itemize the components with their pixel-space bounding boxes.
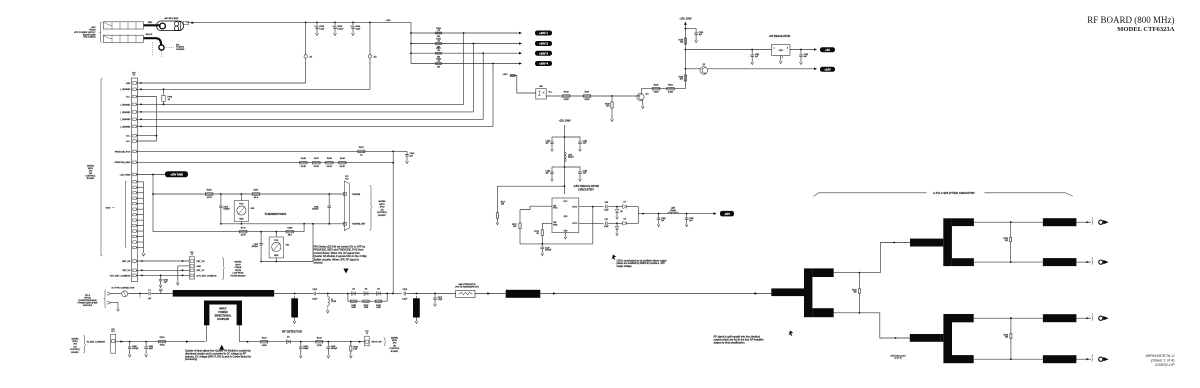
wire PINDIODE_POS <box>136 150 407 152</box>
svg-text:I_SENSE0: I_SENSE0 <box>120 89 131 91</box>
splitter stage2-top input stripline <box>910 239 943 247</box>
wire: BLACK lead to chassis lug <box>144 38 162 45</box>
PIN diode D3 <box>364 292 368 296</box>
svg-text:N.C.: N.C. <box>549 92 553 94</box>
capacitor C605 on +26V bus <box>316 22 318 24</box>
svg-text:PINDIODE_POS: PINDIODE_POS <box>115 151 131 153</box>
svg-text:MATES: MATES <box>71 337 79 340</box>
net label -15V <box>720 211 734 217</box>
net label +26V 1 <box>535 31 552 36</box>
svg-text:I_SENSE4: I_SENSE4 <box>120 126 131 128</box>
PIN diode D2 <box>347 293 349 295</box>
junction E1 vertical <box>305 22 307 24</box>
svg-text:supply voltage.: supply voltage. <box>617 265 633 268</box>
resistor R177 10K bleed to ground <box>496 186 498 213</box>
junction to I_SENSE4 <box>492 63 494 65</box>
svg-text:100: 100 <box>853 292 856 294</box>
svg-text:+26V 3: +26V 3 <box>539 51 548 55</box>
board edge bracket output 4 <box>1091 357 1094 362</box>
svg-text:+26V 1: +26V 1 <box>539 31 548 35</box>
svg-text:C67: C67 <box>605 219 608 221</box>
connector P1 pin I_SENSE4 <box>133 125 136 128</box>
connector P1 pin I_SENSE0 <box>133 88 136 91</box>
svg-text:BOARD: BOARD <box>378 214 386 217</box>
wire DET_VF <box>136 269 189 271</box>
svg-text:CONTROL: CONTROL <box>70 349 81 351</box>
arrow into +26V 1 label <box>519 32 522 35</box>
connector P1 GND pin 10 <box>133 230 136 232</box>
balance resistor R134 stage1 <box>859 272 861 274</box>
resistor R139 100K <box>363 300 370 302</box>
svg-text:4.32K: 4.32K <box>564 99 570 101</box>
svg-text:WITH: WITH <box>392 340 398 342</box>
arrow on IN_DET line <box>186 340 189 342</box>
wire outputs merge <box>637 207 639 224</box>
resistor R126 0.07 ohm row 2 <box>436 43 442 45</box>
RF input pin arrows <box>107 292 111 304</box>
net label +26V 2 <box>535 41 552 46</box>
riser I_SENSE3 <box>482 53 484 119</box>
label 1-TO-4 SPLITTER CIRCUITRY with bracket <box>814 193 927 197</box>
wire I_SENSE3 <box>136 118 483 120</box>
arrow into -15V <box>714 212 717 215</box>
capacitor C150 1uF at top <box>685 28 687 30</box>
connector P1 pin N.C. <box>133 134 136 137</box>
junction PINDIODE_POS / bias riser <box>392 151 394 153</box>
arrow into +15V <box>814 68 817 71</box>
resistor R148 24.3K <box>326 162 334 164</box>
connector J1 body <box>365 336 370 346</box>
bias resistor rail right <box>386 294 388 302</box>
svg-text:VSS: VSS <box>563 230 568 232</box>
connector P1 pin OUT_DET_COMMON <box>133 274 136 277</box>
svg-text:+26V 4: +26V 4 <box>539 62 548 66</box>
resistor R103 5.6K shunt <box>350 341 352 343</box>
svg-text:4700pF: 4700pF <box>545 250 552 252</box>
svg-text:1: 1 <box>774 48 775 50</box>
svg-text:+15V_RAW: +15V_RAW <box>119 173 130 176</box>
capacitor C67 10uF series bottom <box>606 222 607 226</box>
resistor R138 100K <box>348 300 387 302</box>
shunt stub bar 2 <box>416 293 418 295</box>
svg-text:1T/2N: 1T/2N <box>331 301 337 303</box>
wire DET_VR <box>136 260 189 262</box>
svg-text:3W: 3W <box>437 67 440 69</box>
GND bus vertical <box>143 182 145 251</box>
svg-text:POWER AMPLIFIER: POWER AMPLIFIER <box>78 301 98 304</box>
brace JP3 <box>83 335 85 353</box>
svg-text:1000pF: 1000pF <box>132 348 139 350</box>
svg-text:.05: .05 <box>437 50 440 52</box>
arrow into +5V <box>814 48 817 51</box>
ferrite bead E500 on +26V stub <box>511 75 516 77</box>
connector P1 pin N.C. <box>133 95 136 98</box>
resistor R203 3.32K <box>652 88 660 90</box>
board edge bracket output 2 <box>1091 260 1094 265</box>
PIN diode D4 <box>377 292 381 296</box>
board edge bracket output 3 <box>1091 316 1094 321</box>
svg-text:VCC: VCC <box>563 201 568 203</box>
wire: RED lead to bus bar <box>144 24 161 26</box>
svg-text:1: 1 <box>1092 314 1093 316</box>
wire to series cap C7 <box>128 293 148 295</box>
svg-text:1: 1 <box>1092 258 1093 260</box>
wire N.C. jumper pins 8-9 <box>136 135 156 137</box>
svg-text:pulses are rectified by D8/D9: pulses are rectified by D8/D9 to provide… <box>616 262 666 265</box>
wire IN1 <box>520 206 552 209</box>
svg-text:+15V_RAW: +15V_RAW <box>679 18 692 21</box>
svg-text:1: 1 <box>1092 355 1093 357</box>
output connector 2 <box>1099 260 1103 264</box>
resistor R146 24.3K <box>300 162 308 164</box>
wire PINDIODE_NEG <box>136 162 393 164</box>
output stripline 1 <box>1043 218 1077 226</box>
svg-text:.05: .05 <box>437 30 440 32</box>
capacitor C401 43pF <box>145 341 147 343</box>
wire long RF line to splitter <box>540 293 771 295</box>
directional coupler right leg <box>237 301 242 326</box>
power cable red conductor sheath <box>103 22 143 29</box>
svg-text:ON: ON <box>73 346 77 348</box>
wire: vertical +26V pin feed x305.7 <box>305 22 307 83</box>
svg-text:N.C.: N.C. <box>126 141 131 143</box>
output stripline 3 <box>1043 314 1077 322</box>
bus bar ring terminal <box>160 23 166 29</box>
connector P1 GND pin 8 <box>133 219 136 221</box>
feedback riser from OUT1 <box>592 206 594 208</box>
net label +5V <box>820 47 835 52</box>
svg-text:DET_VR: DET_VR <box>122 261 131 263</box>
junction E2 vertical <box>369 22 371 24</box>
wire: vertical I_SENSE0 feed x370 <box>369 22 371 89</box>
svg-text:.05: .05 <box>437 61 440 63</box>
arrow on RF line <box>487 292 490 295</box>
connector P1 pin PINDIODE_POS <box>133 150 136 153</box>
svg-text:24.3K: 24.3K <box>327 166 333 168</box>
svg-text:ON: ON <box>393 345 397 347</box>
wire +15V_RAW vertical x685 <box>684 23 686 89</box>
wire stage1 bottom out <box>834 313 910 338</box>
connector PL2 body <box>344 181 349 231</box>
wire output 4 <box>1076 358 1091 360</box>
splitter stage1 vertical bar <box>804 268 812 317</box>
connector P1 GND pin 12 <box>133 241 136 243</box>
wire IN2 <box>542 222 552 224</box>
svg-text:+26V BUS BAR: +26V BUS BAR <box>164 17 179 20</box>
svg-text:INPUT_RF: INPUT_RF <box>372 342 383 344</box>
note: U25 oscillator explanation <box>612 255 617 260</box>
wire out D <box>974 358 1043 360</box>
ground symbol for GND pins <box>142 251 145 256</box>
svg-text:8.2pF: 8.2pF <box>402 298 408 300</box>
balance resistor R136 <box>1010 317 1012 319</box>
arrow on RF line 3 <box>755 292 758 295</box>
wire out C <box>974 317 1043 319</box>
resistor R196 on x685 lower <box>684 75 686 81</box>
svg-text:14.7K: 14.7K <box>241 235 247 237</box>
capacitor C910 on PIN bias <box>406 151 408 154</box>
svg-text:N.C.: N.C. <box>126 96 131 98</box>
svg-text:WITH: WITH <box>235 264 241 266</box>
capacitor C143 0.1uF <box>565 167 581 172</box>
svg-text:PL1: PL1 <box>111 331 114 333</box>
svg-text:TSENSE: TSENSE <box>352 194 361 196</box>
svg-text:J2: J2 <box>191 254 193 256</box>
riser I_SENSE1 <box>463 33 465 104</box>
capacitor C140 1uF <box>564 136 566 138</box>
junction loop2 riser <box>303 223 305 225</box>
connector P1 pin +15V_RAW <box>133 173 136 176</box>
net label +26V 4 <box>535 61 552 66</box>
svg-text:D5: D5 <box>623 218 625 220</box>
wire out A <box>974 221 1043 223</box>
splitter input stripline <box>771 288 804 296</box>
svg-text:+26V 2: +26V 2 <box>539 42 548 46</box>
svg-text:MATES: MATES <box>378 200 386 203</box>
connector P1 pin DET_VF <box>133 269 136 272</box>
svg-text:NEG: NEG <box>553 225 558 227</box>
thermistor RT2 <box>275 231 277 233</box>
capacitor C206 1uF shunt <box>658 213 660 215</box>
svg-text:DET_VF: DET_VF <box>197 270 205 272</box>
svg-text:CABLE: CABLE <box>235 266 242 269</box>
wire +15V_RAW to U25 <box>564 125 566 194</box>
svg-text:1000pF: 1000pF <box>223 209 230 211</box>
splitter stage1 top arm <box>812 268 833 277</box>
resistor R147 24.3K <box>313 162 321 164</box>
svg-text:.05: .05 <box>437 41 440 43</box>
svg-text:QUARTER/SIGNAL: QUARTER/SIGNAL <box>78 299 98 302</box>
riser I_SENSE4 <box>492 64 494 127</box>
directional coupler left leg <box>204 301 209 326</box>
svg-text:DET_VR: DET_VR <box>197 261 205 263</box>
svg-text:OUT2: OUT2 <box>572 223 577 225</box>
diode D6 shunt top <box>616 206 618 208</box>
wire I_SENSE2 <box>136 111 473 113</box>
splitter stage2-bottom input stripline <box>910 334 941 342</box>
wire OUT1 <box>579 206 604 208</box>
capacitor C933 at RF line <box>160 291 162 294</box>
svg-text:ON: ON <box>380 209 384 211</box>
pointer arrow below PIN diodes note <box>343 269 348 274</box>
bias resistor rail left <box>347 294 349 302</box>
output connector 4 <box>1099 357 1103 361</box>
shunt stub bar 1 <box>294 293 296 295</box>
capacitor C610 6.8pF series <box>314 292 315 296</box>
wire VCC bleed line <box>497 185 564 187</box>
svg-text:PINDIODE_NEG: PINDIODE_NEG <box>115 162 131 164</box>
arrow into +26V 4 label <box>519 62 522 65</box>
svg-text:RF A: RF A <box>85 294 90 297</box>
svg-text:1-TO-4 SPLITTER CIRCUITRY: 1-TO-4 SPLITTER CIRCUITRY <box>933 191 975 195</box>
svg-text:+26V: +26V <box>502 74 508 76</box>
connector P1 GND pin 7 <box>133 213 136 215</box>
brace: thermistor connector group <box>370 185 373 230</box>
bracket GND group <box>125 181 126 248</box>
capacitor C152 1uF <box>751 49 753 51</box>
svg-text:BOARD: BOARD <box>87 177 95 180</box>
net label +15V <box>820 67 835 72</box>
IC U25 <box>552 198 579 233</box>
svg-text:+26V: +26V <box>125 83 131 85</box>
stripline TL2 bar <box>506 290 541 298</box>
svg-text:0.01μF: 0.01μF <box>337 29 344 31</box>
svg-text:FILTER BOARD: FILTER BOARD <box>231 275 246 278</box>
note: sample of input signal <box>219 345 224 350</box>
wire output 1 <box>1076 221 1091 223</box>
terminal E1 <box>304 55 307 58</box>
junction to I_SENSE3 <box>482 52 484 54</box>
capacitor C906 1000pF near connector <box>328 193 330 195</box>
capacitor C905 1000pF thermistor loop1 <box>220 193 222 195</box>
capacitor C402 390pF shunt <box>300 341 302 343</box>
bus bar stud circles <box>174 22 178 26</box>
svg-text:I_SENSE2: I_SENSE2 <box>120 112 131 114</box>
wire I_SENSE4 <box>136 125 493 127</box>
connector P1 GND pin 11 <box>133 235 136 237</box>
resistor R140 100K <box>375 300 382 302</box>
capacitor C612 1.5pF shunt <box>434 293 436 295</box>
connector P1 pin I_SENSE1 <box>133 103 136 106</box>
wire: +26V feed row 4 <box>411 63 521 65</box>
connector PL2 pin TSENSE_RET <box>343 222 346 225</box>
capacitor C141 0.1uF <box>565 137 581 142</box>
splitter stage1 bottom arm <box>812 308 833 317</box>
junction PIN bias <box>392 293 394 295</box>
output connector 3 <box>1099 316 1103 320</box>
svg-text:NEG: NEG <box>274 255 279 257</box>
resistor R127 0.07 ohm row 3 <box>436 52 442 54</box>
attenuator AT1 <box>456 290 475 297</box>
svg-text:NEG: NEG <box>239 219 244 221</box>
capacitor C153 1uF <box>800 49 802 51</box>
svg-text:0.1μF: 0.1μF <box>319 29 325 31</box>
wire TSENSE_RET bottom line <box>221 223 345 225</box>
connector P1 pin I_SENSE3 <box>133 118 136 121</box>
svg-text:4.32K: 4.32K <box>584 99 590 101</box>
junction to I_SENSE1 <box>463 32 465 34</box>
svg-text:N.C.: N.C. <box>126 136 131 138</box>
wire TSENSE top line <box>153 193 345 195</box>
svg-text:3: 3 <box>787 48 788 50</box>
brace for power cable <box>101 22 103 42</box>
svg-text:(VIA CABLE): (VIA CABLE) <box>83 36 95 39</box>
svg-text:220μH: 220μH <box>670 210 676 212</box>
wire N.C. pin 3 stub <box>136 96 156 98</box>
connector PL1 body <box>111 334 116 353</box>
svg-text:.01μF: .01μF <box>355 29 361 31</box>
svg-text:OUT1: OUT1 <box>572 207 577 209</box>
svg-text:U25 is constructed as an oscil: U25 is constructed as an oscillator whos… <box>617 260 667 263</box>
connector P1 body <box>132 78 138 282</box>
connector P1 GND pin 6 <box>133 208 136 210</box>
svg-text:I_SENSE3: I_SENSE3 <box>120 119 131 121</box>
svg-text:100K: 100K <box>376 307 381 309</box>
junction +15V node <box>685 68 687 70</box>
thermistor RT1 <box>241 193 243 195</box>
svg-text:24.3K: 24.3K <box>301 166 307 168</box>
terminal E2 <box>368 55 371 58</box>
connector PL1 pin <box>112 340 115 343</box>
svg-text:C66: C66 <box>605 202 608 204</box>
wire +15V RAW branch to thermistor loop2 <box>152 175 154 232</box>
splitter stage2-top lower arm <box>952 258 974 266</box>
wire IN_DET_COMMON <box>116 341 206 343</box>
connector J2 body <box>189 257 194 279</box>
GND jumper to J2 <box>178 265 190 267</box>
svg-text:+26V: +26V <box>385 20 391 22</box>
chassis ring lug E <box>159 45 164 50</box>
connector P1 pin DET_VR <box>133 260 136 263</box>
connector P1 GND pin 4 <box>133 197 136 199</box>
output stripline 4 <box>1043 355 1077 363</box>
svg-text:100K: 100K <box>364 307 369 309</box>
svg-text:390pF: 390pF <box>303 348 309 350</box>
arrow into J1 <box>359 341 362 343</box>
wire detector line <box>238 325 240 341</box>
connector P1 pin N.C. <box>133 140 136 143</box>
svg-text:RF BOARD (800 MHz): RF BOARD (800 MHz) <box>1087 15 1174 25</box>
splitter stage2-bottom lower arm <box>952 355 974 363</box>
splitter stage2-bottom upper arm <box>952 314 974 322</box>
connector P1 pin PINDIODE_NEG <box>133 161 136 164</box>
svg-text:COUPLER: COUPLER <box>217 318 229 321</box>
arrow on RF line 2 <box>553 292 556 295</box>
resistor R100 100 <box>159 340 166 342</box>
svg-text:24.3K: 24.3K <box>340 166 346 168</box>
resistor R149 24.3K <box>339 162 347 164</box>
bus bar output tab <box>184 21 189 24</box>
svg-text:RED: RED <box>148 22 153 24</box>
brace RF A input <box>104 290 106 308</box>
wire main line after TL1 <box>274 293 313 295</box>
fuse F1 <box>163 88 165 90</box>
resistor R101 100 <box>261 341 268 343</box>
svg-text:2: 2 <box>782 57 783 59</box>
ground stub at N connector <box>139 294 141 299</box>
svg-text:stages for final amplification: stages for final amplification. <box>714 341 746 344</box>
capacitor C932 on OUT_DET_COMMON <box>160 275 162 277</box>
capacitor C142 1uF <box>564 166 566 168</box>
riser loop2 to TSENSE_RET <box>312 224 314 262</box>
balance resistor R135 <box>1010 221 1012 223</box>
dashed chassis reference lines <box>153 42 175 57</box>
capacitor C604 on +26V bus <box>352 22 354 24</box>
wire feedback bottom <box>520 243 593 245</box>
svg-text:(P/O PA HARDWARE KIT): (P/O PA HARDWARE KIT) <box>455 285 479 288</box>
svg-text:14.7K: 14.7K <box>206 197 212 199</box>
svg-text:CONTROL: CONTROL <box>389 348 400 350</box>
resistor R170 14.7K loop2 <box>239 231 247 233</box>
directional coupler top bar <box>204 301 242 305</box>
svg-text:BLACK: BLACK <box>146 33 153 36</box>
arrow on +26V bus <box>192 21 195 24</box>
board edge bracket output 1 <box>1091 220 1094 225</box>
svg-text:+15V: +15V <box>824 68 831 72</box>
connector J2 pin OUT_DET_COMMON <box>190 274 193 277</box>
wire out B <box>974 261 1043 263</box>
capacitor C7 series <box>149 292 150 296</box>
arrow into +26V 2 label <box>519 42 522 45</box>
svg-text:-15V: -15V <box>724 212 730 216</box>
svg-text:TSENSE_RET: TSENSE_RET <box>352 224 366 226</box>
splitter stage2-top upper arm <box>952 218 974 226</box>
svg-text:3.32K: 3.32K <box>653 92 659 94</box>
U25 VSS ground <box>564 233 566 235</box>
IC U50 optocoupler <box>536 89 546 99</box>
wire loop2 bottom <box>261 261 313 263</box>
note: RF signal split equally <box>789 331 794 336</box>
